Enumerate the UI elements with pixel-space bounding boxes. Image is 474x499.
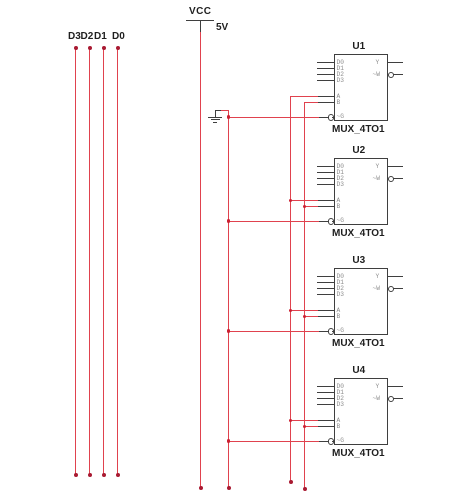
mux U1 pin Y stub <box>388 62 403 63</box>
mux U2 pin Y stub <box>388 166 403 167</box>
wire VCC bottom endpoint <box>199 486 203 490</box>
mux U2 pin D2 stub <box>317 178 334 179</box>
mux U1 pin D0 stub <box>317 62 334 63</box>
wire D1 vertical <box>103 47 104 475</box>
power VCC bar <box>186 20 214 21</box>
mux U4 pin Y stub <box>388 386 403 387</box>
wire select A bus vertical <box>290 96 291 482</box>
wire D2 vertical <box>89 47 90 475</box>
mux U1 pin ~G stub inner <box>332 117 334 118</box>
junction U4 ~G on ground bus <box>227 439 231 443</box>
mux U2 pin ~G bubble <box>328 218 335 225</box>
mux U1 pin label ~W <box>373 72 380 78</box>
wire U1 select B horizontal <box>304 102 318 103</box>
power VCC value 5V <box>216 23 228 33</box>
junction U4 B on bus <box>303 425 307 429</box>
junction U3 A on bus <box>289 309 293 313</box>
mux U1 pin ~G stub <box>318 117 328 118</box>
mux U3 pin label B <box>337 314 341 320</box>
wire select B bus bottom endpoint <box>303 487 307 491</box>
mux U2 pin label A <box>337 198 341 204</box>
junction U3 B on bus <box>303 315 307 319</box>
mux U1 body <box>334 54 388 121</box>
mux U3 pin label ~G <box>337 328 344 334</box>
mux U1 value label MUX_4TO1 <box>332 125 385 135</box>
mux U3 pin label D2 <box>337 286 344 292</box>
mux U4 pin label D0 <box>337 384 344 390</box>
wire U1 select A horizontal <box>290 96 318 97</box>
mux U4 pin label Y <box>376 384 380 390</box>
mux U3 pin D2 stub <box>317 288 334 289</box>
ground lead vertical <box>215 110 216 117</box>
mux U1 pin label ~G <box>337 114 344 120</box>
mux U2 pin label D1 <box>337 170 344 176</box>
power VCC label <box>189 7 211 17</box>
op-amp U2 refdes label <box>332 146 386 156</box>
mux U2 pin D0 stub <box>317 166 334 167</box>
mux U3 pin label D0 <box>337 274 344 280</box>
mux U2 pin label ~W <box>373 176 380 182</box>
wire U4 select A horizontal <box>290 420 318 421</box>
ground bar 3 <box>213 122 218 123</box>
mux U3 pin Y stub <box>388 276 403 277</box>
wire D2 top endpoint <box>88 46 92 50</box>
mux U1 pin D3 stub <box>317 80 334 81</box>
mux U1 pin label Y <box>376 60 380 66</box>
mux U2 pin label D2 <box>337 176 344 182</box>
ground bar 2 <box>211 119 220 120</box>
wire U2 enable ~G horizontal <box>228 221 319 222</box>
mux U2 pin ~W stub <box>393 178 403 179</box>
mux U1 pin label B <box>337 100 341 106</box>
wire U2 select B horizontal <box>304 206 318 207</box>
wire ground bus vertical <box>228 110 229 488</box>
mux U3 value label MUX_4TO1 <box>332 339 385 349</box>
junction U3 ~G on ground bus <box>227 329 231 333</box>
mux U3 pin ~G stub <box>318 331 328 332</box>
mux U2 pin label ~G <box>337 218 344 224</box>
net label D2 <box>81 32 94 42</box>
wire select A bus bottom endpoint <box>289 480 293 484</box>
mux U2 pin B stub <box>317 206 334 207</box>
mux U2 value label MUX_4TO1 <box>332 229 385 239</box>
net label D0 <box>112 32 125 42</box>
wire U3 select B horizontal <box>304 316 318 317</box>
mux U2 pin label D3 <box>337 182 344 188</box>
mux U4 pin label D1 <box>337 390 344 396</box>
wire U4 enable ~G horizontal <box>228 441 319 442</box>
junction U1 ~G on ground bus <box>227 115 231 119</box>
mux U4 value label MUX_4TO1 <box>332 449 385 459</box>
wire U2 select A horizontal <box>290 200 318 201</box>
mux U4 pin label B <box>337 424 341 430</box>
mux U1 pin A stub <box>317 96 334 97</box>
mux U1 pin ~W stub <box>393 74 403 75</box>
mux U4 pin ~G stub <box>318 441 328 442</box>
mux U3 pin label ~W <box>373 286 380 292</box>
mux U3 pin ~W stub <box>393 288 403 289</box>
mux U1 pin ~W bubble <box>388 72 395 79</box>
mux U3 body <box>334 268 388 335</box>
mux U2 pin ~G stub <box>318 221 328 222</box>
mux U2 pin D3 stub <box>317 184 334 185</box>
mux U4 pin A stub <box>317 420 334 421</box>
mux U1 pin B stub <box>317 102 334 103</box>
ground bar 1 <box>208 117 222 118</box>
mux U4 pin D3 stub <box>317 404 334 405</box>
wire ground bus bottom endpoint <box>227 486 231 490</box>
mux U3 pin ~W bubble <box>388 286 395 293</box>
mux U4 pin label D2 <box>337 396 344 402</box>
wire D0 bottom endpoint <box>116 473 120 477</box>
op-amp U3 refdes label <box>332 256 386 266</box>
wire select B bus vertical <box>304 102 305 489</box>
mux U4 pin B stub <box>317 426 334 427</box>
wire U4 select B horizontal <box>304 426 318 427</box>
mux U2 pin D1 stub <box>317 172 334 173</box>
ground lead horizontal <box>215 110 222 111</box>
net label D1 <box>94 32 107 42</box>
wire D0 vertical <box>117 47 118 475</box>
mux U1 pin D1 stub <box>317 68 334 69</box>
mux U2 pin ~W bubble <box>388 176 395 183</box>
mux U1 pin label D0 <box>337 60 344 66</box>
mux U4 pin D2 stub <box>317 398 334 399</box>
mux U2 pin A stub <box>317 200 334 201</box>
junction U2 A on bus <box>289 199 293 203</box>
power VCC lead <box>200 20 201 32</box>
mux U4 pin ~G stub inner <box>332 441 334 442</box>
mux U3 pin label D3 <box>337 292 344 298</box>
mux U3 pin D3 stub <box>317 294 334 295</box>
mux U4 pin D1 stub <box>317 392 334 393</box>
mux U3 pin label A <box>337 308 341 314</box>
junction U2 B on bus <box>303 205 307 209</box>
mux U4 pin label D3 <box>337 402 344 408</box>
wire ground elbow top <box>221 110 229 111</box>
junction U2 ~G on ground bus <box>227 219 231 223</box>
net label D3 <box>68 32 81 42</box>
wire U3 select A horizontal <box>290 310 318 311</box>
mux U2 pin label Y <box>376 164 380 170</box>
wire D1 top endpoint <box>102 46 106 50</box>
op-amp U1 refdes label <box>332 42 386 52</box>
mux U1 pin ~G bubble <box>328 114 335 121</box>
mux U3 pin B stub <box>317 316 334 317</box>
mux U4 pin ~W stub <box>393 398 403 399</box>
mux U4 pin ~W bubble <box>388 396 395 403</box>
wire D3 top endpoint <box>74 46 78 50</box>
wire D3 vertical <box>75 47 76 475</box>
mux U3 pin D1 stub <box>317 282 334 283</box>
mux U1 pin label D1 <box>337 66 344 72</box>
mux U4 pin D0 stub <box>317 386 334 387</box>
junction U4 A on bus <box>289 419 293 423</box>
mux U4 pin label A <box>337 418 341 424</box>
mux U4 pin label ~G <box>337 438 344 444</box>
mux U1 pin label A <box>337 94 341 100</box>
mux U4 body <box>334 378 388 445</box>
wire U3 enable ~G horizontal <box>228 331 319 332</box>
wire D3 bottom endpoint <box>74 473 78 477</box>
mux U3 pin label D1 <box>337 280 344 286</box>
mux U4 pin ~G bubble <box>328 438 335 445</box>
mux U4 pin label ~W <box>373 396 380 402</box>
wire D2 bottom endpoint <box>88 473 92 477</box>
mux U1 pin label D3 <box>337 78 344 84</box>
mux U2 pin ~G stub inner <box>332 221 334 222</box>
op-amp U4 refdes label <box>332 366 386 376</box>
mux U3 pin ~G stub inner <box>332 331 334 332</box>
wire D1 bottom endpoint <box>102 473 106 477</box>
mux U2 pin label B <box>337 204 341 210</box>
wire U1 enable ~G horizontal <box>228 117 319 118</box>
wire D0 top endpoint <box>116 46 120 50</box>
wire VCC vertical <box>200 32 201 488</box>
mux U3 pin label Y <box>376 274 380 280</box>
mux U3 pin D0 stub <box>317 276 334 277</box>
mux U1 pin D2 stub <box>317 74 334 75</box>
mux U2 pin label D0 <box>337 164 344 170</box>
mux U3 pin ~G bubble <box>328 328 335 335</box>
mux U1 pin label D2 <box>337 72 344 78</box>
mux U2 body <box>334 158 388 225</box>
mux U3 pin A stub <box>317 310 334 311</box>
